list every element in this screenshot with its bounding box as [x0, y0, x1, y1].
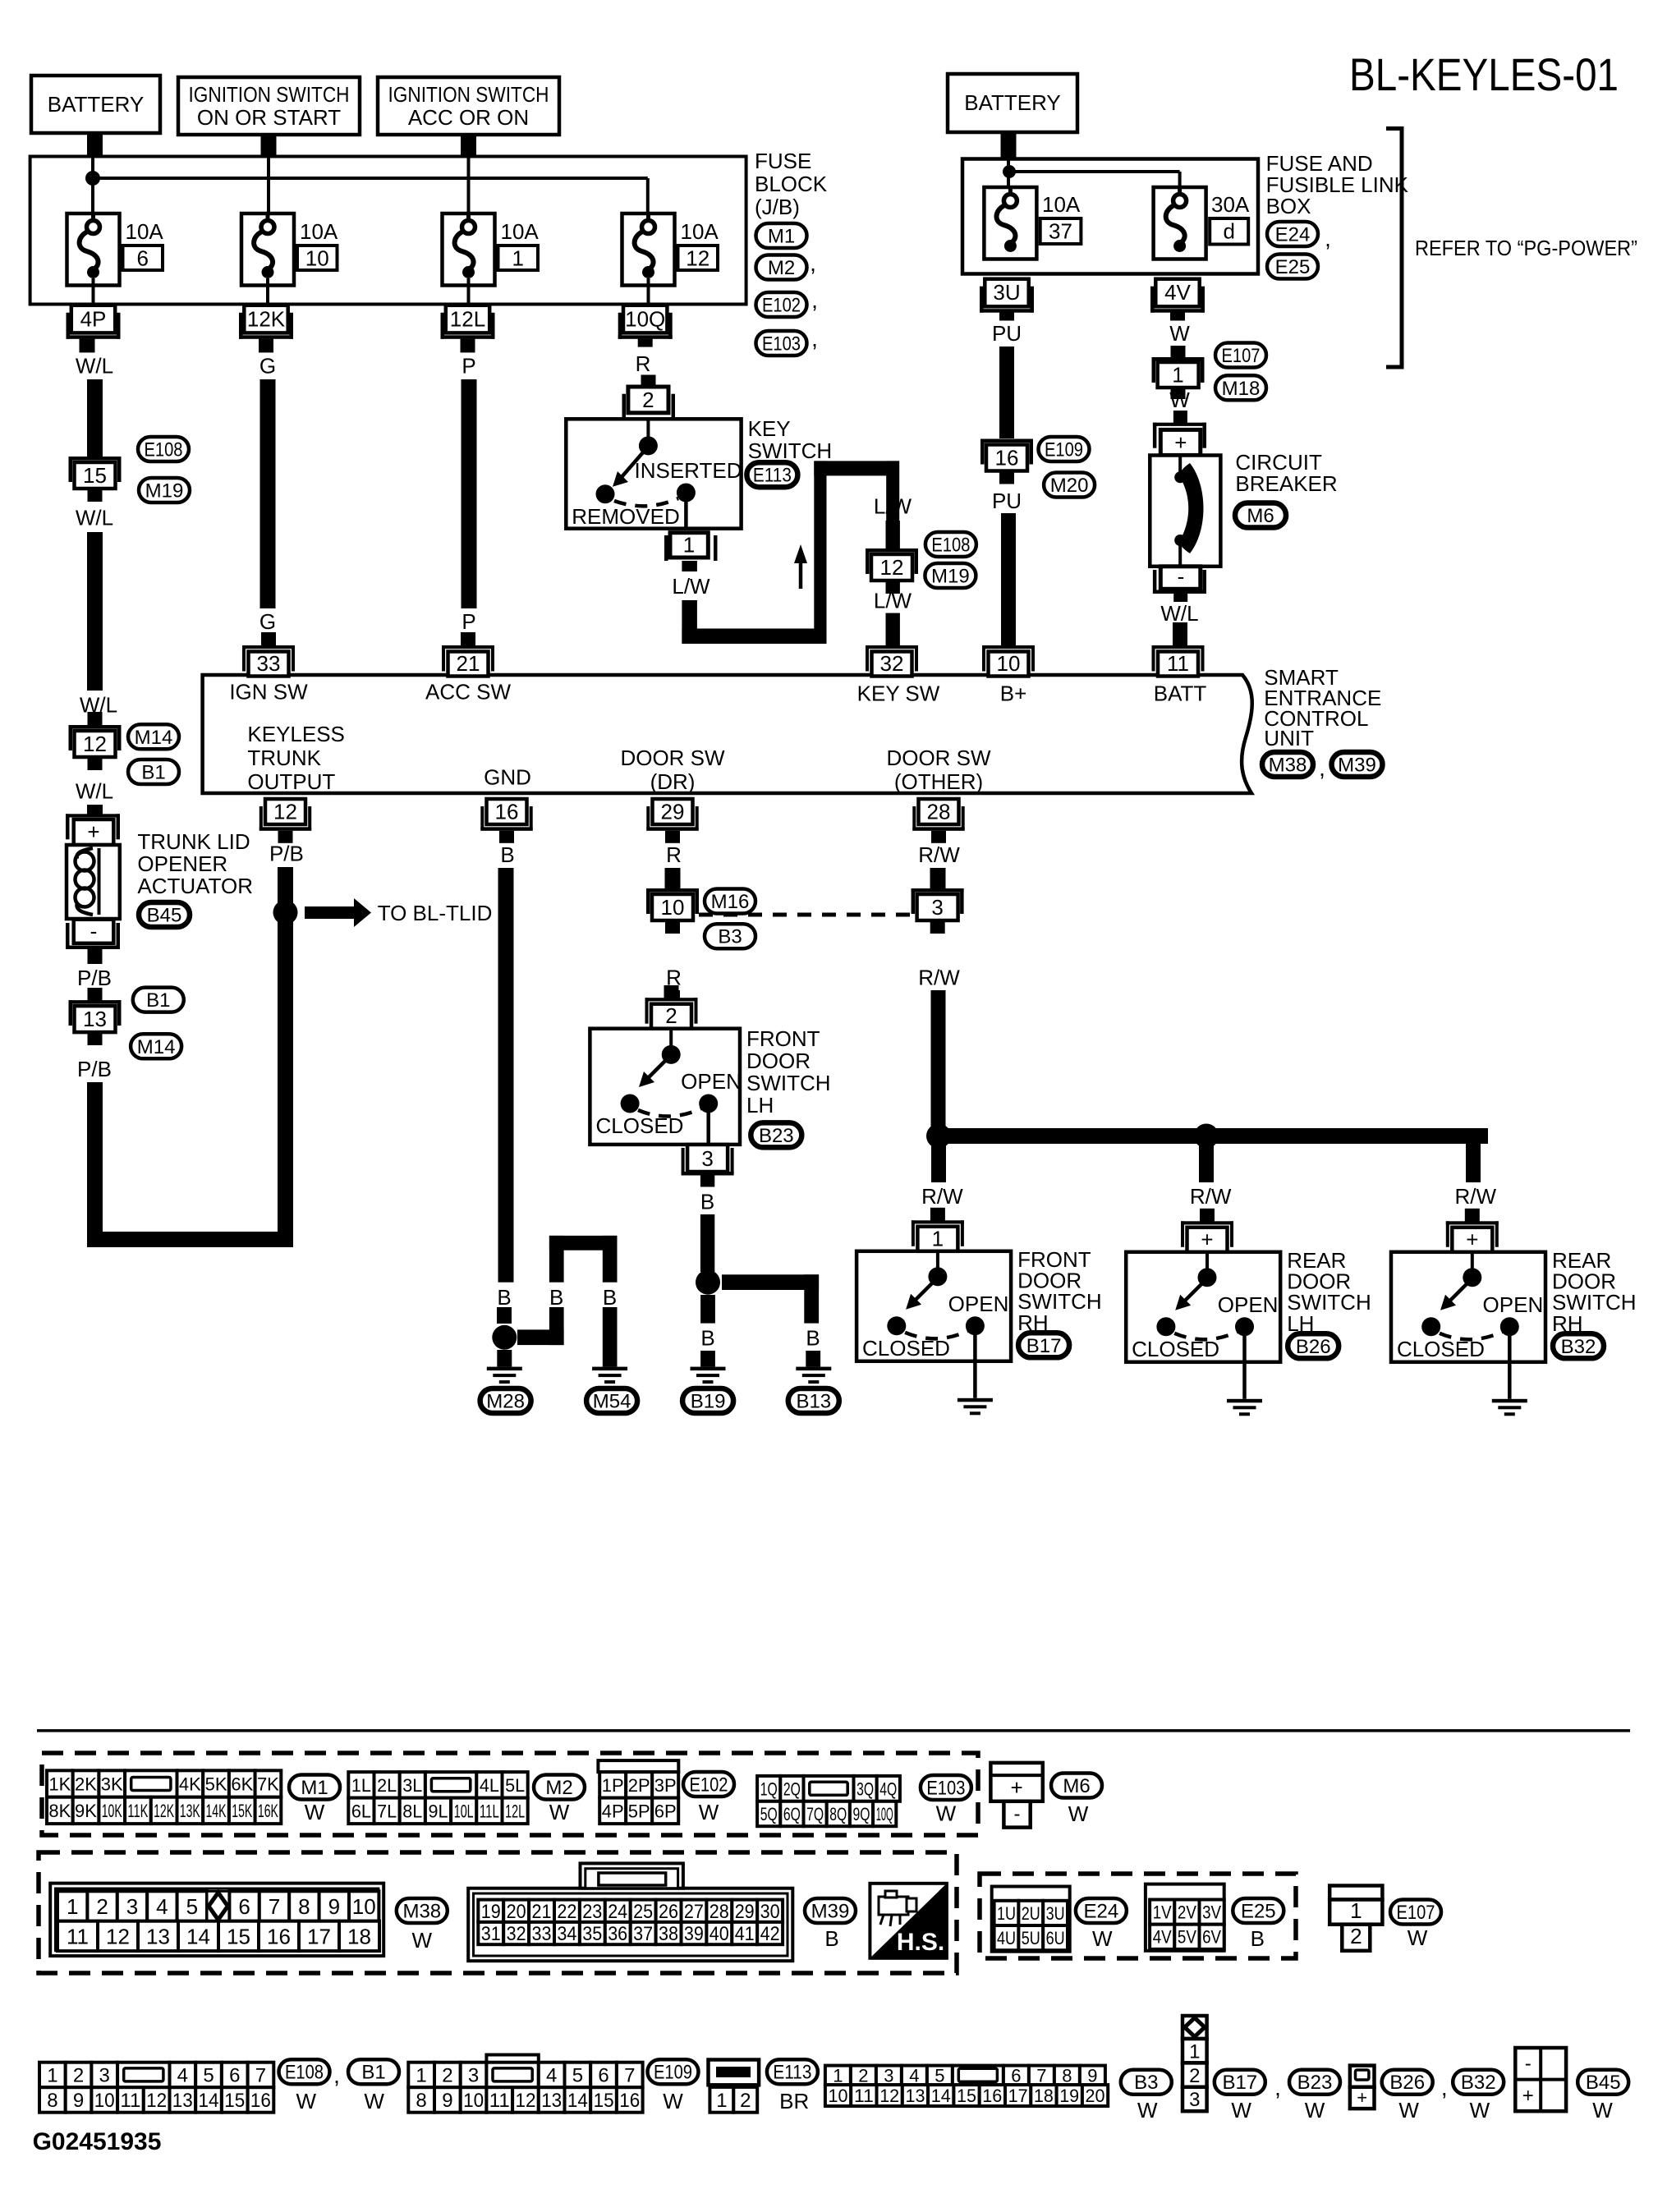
- ground symbol B13: [796, 1367, 831, 1371]
- circuit breaker internals: [1178, 457, 1182, 475]
- svg-text:B23: B23: [759, 1125, 794, 1147]
- svg-text:30: 30: [760, 1901, 780, 1923]
- svg-text:W/L: W/L: [1160, 601, 1198, 626]
- right leg to ground M54: [603, 1307, 618, 1367]
- rear door switch RH OPEN contact: [1500, 1317, 1519, 1336]
- rear door switch RH box: [1391, 1252, 1545, 1362]
- terminal 32 KEY SW: [866, 645, 918, 649]
- svg-text:1: 1: [47, 2065, 57, 2087]
- stub above connector 12 E108/M19: [886, 521, 900, 549]
- svg-text:OPEN: OPEN: [948, 1292, 1009, 1316]
- svg-text:L/W: L/W: [874, 494, 912, 519]
- svg-text:PU: PU: [992, 321, 1022, 346]
- wire B from terminal 16: [498, 868, 514, 1283]
- svg-text:37: 37: [633, 1923, 653, 1945]
- branch to B13 ground: [722, 1274, 819, 1290]
- reference bracket: [1400, 129, 1404, 368]
- svg-text:29: 29: [735, 1901, 755, 1923]
- stub above connector 13: [88, 988, 103, 1001]
- svg-text:DOOR SW: DOOR SW: [620, 746, 725, 770]
- connector oval M20: [1044, 473, 1095, 498]
- svg-text:14: 14: [567, 2090, 588, 2112]
- rear door switch RH CLOSED contact: [1421, 1317, 1440, 1336]
- svg-text:E107: E107: [1397, 1902, 1435, 1924]
- svg-text:10: 10: [305, 246, 329, 271]
- svg-text:L/W: L/W: [874, 589, 912, 613]
- stub above M28 junction: [497, 1307, 512, 1324]
- power source box IGNITION SWITCH ACC OR ON: [378, 77, 559, 135]
- svg-text:ON OR START: ON OR START: [197, 105, 341, 130]
- front door switch RH throw arrow: [916, 1283, 933, 1300]
- svg-text:1: 1: [416, 2065, 426, 2087]
- fuse 10 10A: [241, 213, 294, 286]
- stub below 3U: [999, 313, 1014, 321]
- svg-text:3Q: 3Q: [856, 1778, 874, 1799]
- svg-text:3: 3: [701, 1146, 713, 1171]
- svg-text:W: W: [699, 1800, 719, 1824]
- svg-text:R: R: [636, 351, 651, 376]
- svg-text:E113: E113: [753, 465, 792, 487]
- svg-text:INSERTED: INSERTED: [635, 458, 742, 483]
- svg-text:E25: E25: [1275, 256, 1311, 278]
- stub below 12K: [259, 339, 273, 353]
- svg-text:W: W: [305, 1800, 325, 1824]
- svg-text:B23: B23: [1297, 2072, 1333, 2094]
- svg-text:4V: 4V: [1164, 280, 1191, 305]
- connector oval E25 (table): [1233, 1898, 1284, 1923]
- svg-text:6U: 6U: [1046, 1928, 1065, 1948]
- svg-text:W: W: [1408, 1925, 1428, 1950]
- svg-text:E108: E108: [931, 535, 970, 557]
- front door switch RH dashed travel arc: [905, 1331, 968, 1339]
- connector oval E113: [746, 462, 797, 487]
- wire PU to connector 16: [999, 346, 1014, 438]
- svg-text:OPENER: OPENER: [137, 851, 227, 876]
- svg-text:B45: B45: [1586, 2072, 1621, 2094]
- svg-text:1: 1: [833, 2065, 843, 2086]
- svg-text:5: 5: [935, 2065, 944, 2086]
- svg-text:B32: B32: [1561, 1336, 1596, 1358]
- connector table M1: [47, 1770, 73, 1797]
- svg-text:M54: M54: [593, 1391, 631, 1413]
- svg-text:,: ,: [1325, 226, 1331, 251]
- svg-text:W: W: [549, 1800, 570, 1824]
- svg-text:4V: 4V: [1153, 1927, 1172, 1948]
- svg-text:W: W: [1169, 321, 1190, 346]
- junction node battery feed: [85, 171, 100, 186]
- svg-text:E109: E109: [1045, 439, 1083, 461]
- svg-text:BR: BR: [779, 2089, 809, 2113]
- wire L/W key switch to riser: [682, 600, 697, 644]
- svg-text:B1: B1: [146, 989, 170, 1012]
- ground oval M54: [586, 1388, 637, 1413]
- svg-text:B: B: [500, 842, 514, 867]
- front door switch RH ground: [957, 1398, 993, 1402]
- svg-text:M38: M38: [402, 1901, 441, 1923]
- ground branch bridge wire: [549, 1236, 618, 1251]
- connector oval E109 (table): [648, 2059, 699, 2084]
- svg-text:6P: 6P: [654, 1801, 677, 1821]
- svg-text:BLOCK: BLOCK: [755, 172, 828, 196]
- connector table E25: [1146, 1884, 1224, 1951]
- svg-text:33: 33: [257, 651, 281, 676]
- svg-text:3: 3: [884, 2065, 893, 2086]
- svg-text:1V: 1V: [1153, 1902, 1172, 1923]
- svg-text:B: B: [824, 1926, 838, 1951]
- svg-text:13: 13: [906, 2086, 925, 2106]
- svg-text:L/W: L/W: [672, 574, 710, 599]
- svg-text:30A: 30A: [1211, 192, 1250, 217]
- svg-text:13: 13: [541, 2090, 562, 2112]
- stub to B13 ground: [806, 1351, 820, 1367]
- wire fuse 1 to terminal 12L: [467, 278, 471, 305]
- svg-text:39: 39: [684, 1923, 704, 1945]
- rear door switch LH OPEN contact: [1235, 1317, 1254, 1336]
- svg-text:10A: 10A: [501, 219, 540, 244]
- svg-text:B13: B13: [796, 1391, 831, 1413]
- svg-text:8: 8: [416, 2090, 426, 2112]
- front door switch RH pin connector 1: [930, 1208, 945, 1222]
- connector oval M18: [1215, 375, 1266, 400]
- terminal 12K of fuse block: [244, 305, 287, 333]
- svg-text:B: B: [549, 1285, 563, 1310]
- stub below connector 10: [665, 920, 680, 934]
- stub below circuit breaker: [1173, 594, 1187, 602]
- svg-text:M2: M2: [768, 257, 795, 279]
- svg-text:M1: M1: [301, 1777, 328, 1799]
- svg-text:3V: 3V: [1202, 1902, 1221, 1923]
- svg-text:OUTPUT: OUTPUT: [247, 769, 335, 794]
- svg-text:W: W: [364, 2089, 384, 2113]
- svg-text:M39: M39: [1338, 755, 1376, 777]
- connector table E113: [709, 2060, 760, 2086]
- connector table E102: [598, 1760, 678, 1772]
- key switch dashed arc: [614, 498, 678, 506]
- wire fuse 37 to terminal 3U: [1008, 277, 1012, 281]
- terminal 4P of fuse block: [71, 305, 115, 333]
- ground symbol M28: [487, 1367, 522, 1371]
- connector oval M14 (left): [128, 724, 179, 749]
- connector oval B3 (inline): [705, 924, 755, 948]
- svg-text:1K: 1K: [48, 1774, 71, 1794]
- connector oval B1 (left): [128, 760, 179, 784]
- svg-text:B17: B17: [1026, 1335, 1062, 1357]
- svg-text:7: 7: [269, 1894, 280, 1919]
- connector oval E108 (left): [138, 437, 189, 461]
- svg-text:9: 9: [328, 1894, 340, 1919]
- svg-text:6: 6: [229, 2065, 240, 2087]
- svg-text:+: +: [87, 819, 99, 844]
- connector oval M38: [1262, 752, 1313, 777]
- stub below connector 12: [886, 581, 900, 594]
- svg-text:20: 20: [507, 1901, 526, 1923]
- connector oval M6: [1235, 503, 1286, 528]
- front door switch RH connector oval B17: [1018, 1333, 1069, 1357]
- front door switch LH common contact: [669, 1030, 673, 1052]
- svg-text:13: 13: [146, 1924, 170, 1948]
- svg-text:12: 12: [516, 2090, 536, 2112]
- junction node B19: [696, 1270, 720, 1295]
- stub above circuit breaker: [1173, 411, 1187, 423]
- terminal 3U of fusible link box: [985, 279, 1028, 307]
- bus wire inside fuse block: [91, 158, 94, 213]
- rear door switch LH ground: [1227, 1399, 1262, 1403]
- power source box BATTERY (left): [31, 76, 160, 133]
- svg-text:W: W: [1231, 2098, 1251, 2123]
- connector table M39: [468, 1888, 792, 1962]
- svg-text:13K: 13K: [180, 1801, 200, 1821]
- svg-text:17: 17: [307, 1924, 331, 1948]
- svg-text:12: 12: [273, 800, 297, 824]
- stub below connector 12: [88, 757, 103, 770]
- rear door switch RH dashed travel arc: [1440, 1332, 1503, 1340]
- svg-text:2K: 2K: [75, 1774, 97, 1794]
- svg-text:12K: 12K: [247, 306, 286, 331]
- rear door switch RH connector oval B32: [1553, 1333, 1604, 1358]
- svg-text:10: 10: [661, 895, 685, 920]
- svg-text:19: 19: [1059, 2086, 1079, 2106]
- svg-text:LH: LH: [746, 1093, 774, 1117]
- svg-text:10: 10: [829, 2086, 848, 2106]
- terminal 29 DOOR SW DR: [653, 799, 693, 824]
- svg-text:4P: 4P: [602, 1801, 624, 1821]
- front door switch LH box: [590, 1029, 740, 1145]
- svg-text:,: ,: [811, 326, 818, 351]
- connector table M38: [50, 1884, 383, 1957]
- stub to B19 ground: [700, 1351, 715, 1367]
- connector oval E107 (table): [1390, 1900, 1441, 1925]
- wire battery right to fusible link box: [1001, 131, 1017, 160]
- svg-text:14: 14: [931, 2086, 951, 2106]
- svg-text:1L: 1L: [351, 1775, 371, 1796]
- svg-text:PU: PU: [992, 489, 1022, 513]
- svg-text:3K: 3K: [101, 1774, 123, 1794]
- svg-text:SWITCH: SWITCH: [748, 438, 833, 463]
- connector oval E103 (table): [921, 1775, 971, 1800]
- connector table E109: [486, 2055, 538, 2067]
- svg-text:OPEN: OPEN: [1483, 1292, 1544, 1317]
- svg-text:E108: E108: [145, 439, 183, 461]
- rear door switch LH CLOSED contact: [1156, 1317, 1175, 1336]
- connector E107 (table): [1329, 1886, 1382, 1900]
- connector oval B3 (table): [1121, 2070, 1172, 2095]
- svg-text:B: B: [497, 1285, 511, 1310]
- svg-text:REMOVED: REMOVED: [572, 504, 679, 529]
- svg-text:6V: 6V: [1202, 1927, 1221, 1948]
- svg-text:TRUNK: TRUNK: [247, 746, 321, 770]
- svg-text:M6: M6: [1247, 505, 1274, 527]
- front door switch LH OPEN contact: [699, 1095, 718, 1113]
- terminal 28 DOOR SW OTHER: [919, 799, 959, 824]
- svg-text:12: 12: [106, 1924, 130, 1948]
- svg-text:G: G: [259, 354, 276, 379]
- svg-text:E24: E24: [1084, 1901, 1119, 1923]
- svg-text:REFER TO “PG-POWER”: REFER TO “PG-POWER”: [1415, 236, 1637, 260]
- svg-text:12: 12: [83, 732, 107, 756]
- svg-text:10L: 10L: [454, 1801, 474, 1821]
- svg-text:14K: 14K: [206, 1801, 227, 1821]
- connector table E24: [992, 1887, 1070, 1952]
- fuse 1 10A: [443, 213, 495, 286]
- inline connector 12 E108/M19 (key switch): [866, 548, 918, 553]
- svg-text:2V: 2V: [1178, 1902, 1196, 1923]
- stub above connector 12: [88, 712, 103, 725]
- svg-text:B1: B1: [141, 762, 165, 784]
- svg-text:15: 15: [224, 2090, 245, 2112]
- svg-text:W: W: [1592, 2098, 1613, 2123]
- terminal 12 KEYLESS TRUNK OUTPUT: [265, 799, 305, 824]
- fuse 12 10A: [622, 213, 675, 286]
- svg-text:FUSE: FUSE: [755, 149, 811, 173]
- svg-text:M14: M14: [135, 727, 173, 749]
- corner wire P/B to trunk output wire: [87, 1232, 293, 1247]
- inline connector 15 E108/M19: [69, 457, 122, 461]
- svg-text:9K: 9K: [75, 1801, 97, 1821]
- svg-text:17: 17: [1008, 2086, 1028, 2106]
- stub above connector 1 E107: [1171, 346, 1186, 357]
- svg-text:3P: 3P: [654, 1775, 677, 1796]
- connector oval M2 (table): [534, 1775, 585, 1800]
- connector oval M6 (table): [1051, 1774, 1102, 1798]
- rear door switch LH dashed travel arc: [1174, 1332, 1238, 1340]
- rear door switch RH common contact: [1471, 1252, 1474, 1275]
- connector B45 (table): [1515, 2048, 1566, 2111]
- svg-text:+: +: [1174, 430, 1187, 455]
- keying diamond M38: [207, 1891, 229, 1921]
- svg-text:BATT: BATT: [1154, 681, 1207, 706]
- wire W/L long segment: [87, 532, 103, 691]
- svg-text:9: 9: [1087, 2065, 1097, 2086]
- svg-text:E25: E25: [1241, 1901, 1276, 1923]
- connector oval B26 (table): [1382, 2070, 1433, 2095]
- svg-text:4Q: 4Q: [879, 1778, 897, 1799]
- svg-text:KEYLESS: KEYLESS: [247, 722, 345, 746]
- svg-text:ACC SW: ACC SW: [425, 679, 511, 704]
- svg-text:10K: 10K: [102, 1801, 122, 1821]
- svg-text:E113: E113: [773, 2062, 811, 2084]
- svg-text:3: 3: [99, 2065, 110, 2087]
- dashed group box fuse block connectors: [42, 1753, 978, 1835]
- svg-text:1P: 1P: [602, 1775, 624, 1796]
- svg-text:4: 4: [177, 2065, 188, 2087]
- terminal 4V of fusible link box: [1155, 279, 1199, 307]
- svg-text:10Q: 10Q: [876, 1804, 893, 1824]
- inline connector 10 M16/B3: [646, 888, 699, 893]
- svg-text:E103: E103: [762, 333, 801, 356]
- distribution bar R/W: [931, 1128, 1488, 1144]
- connector table E108/B1: [39, 2063, 66, 2088]
- svg-text:W: W: [412, 1928, 433, 1953]
- svg-text:B: B: [806, 1326, 820, 1351]
- svg-text:B: B: [603, 1285, 617, 1310]
- svg-text:3U: 3U: [1046, 1903, 1065, 1924]
- connector oval B23: [751, 1122, 801, 1147]
- svg-text:10Q: 10Q: [625, 306, 665, 331]
- front door switch RH CLOSED contact: [887, 1316, 906, 1335]
- svg-text:1: 1: [716, 2090, 727, 2112]
- separator line: [37, 1729, 1630, 1732]
- svg-text:15: 15: [227, 1924, 250, 1948]
- ground oval M28: [480, 1388, 531, 1413]
- svg-text:DOOR: DOOR: [746, 1049, 811, 1073]
- svg-text:-: -: [1178, 564, 1185, 589]
- svg-text:(DR): (DR): [650, 769, 696, 794]
- svg-text:7Q: 7Q: [806, 1804, 824, 1824]
- svg-text:M16: M16: [711, 891, 750, 913]
- svg-text:3L: 3L: [402, 1775, 422, 1796]
- svg-text:6L: 6L: [351, 1801, 371, 1821]
- svg-text:27: 27: [684, 1901, 704, 1923]
- svg-text:35: 35: [582, 1923, 602, 1945]
- svg-text:1: 1: [683, 533, 695, 558]
- dashed link connector 10 to connector 3: [699, 913, 911, 917]
- svg-text:M19: M19: [931, 566, 970, 588]
- svg-text:E103: E103: [926, 1778, 965, 1800]
- svg-text:25: 25: [633, 1901, 653, 1923]
- svg-text:+: +: [1011, 1775, 1023, 1800]
- svg-text:2: 2: [1189, 2065, 1200, 2087]
- svg-text:E102: E102: [690, 1774, 728, 1797]
- connector oval E102: [756, 292, 807, 317]
- key switch box: [566, 419, 741, 528]
- svg-text:10A: 10A: [126, 219, 164, 244]
- svg-text:E109: E109: [654, 2062, 692, 2084]
- svg-text:W/L: W/L: [76, 506, 113, 530]
- svg-text:2: 2: [858, 2065, 868, 2086]
- svg-text:12L: 12L: [505, 1801, 525, 1821]
- svg-text:B17: B17: [1222, 2072, 1257, 2094]
- svg-text:BL-KEYLES-01: BL-KEYLES-01: [1349, 48, 1619, 100]
- stub below trunk actuator: [88, 949, 103, 964]
- svg-text:4P: 4P: [80, 306, 107, 331]
- connector oval B17 (table): [1215, 2070, 1265, 2095]
- svg-text:M20: M20: [1050, 475, 1089, 497]
- smart entrance control unit box: [203, 675, 1252, 793]
- svg-text:SWITCH: SWITCH: [746, 1071, 831, 1095]
- svg-text:1: 1: [67, 1894, 78, 1919]
- svg-text:W: W: [1137, 2098, 1158, 2123]
- svg-text:3U: 3U: [993, 280, 1020, 305]
- inline connector 12 M14/B1: [69, 725, 122, 729]
- svg-text:B26: B26: [1389, 2072, 1425, 2094]
- svg-text:1Q: 1Q: [760, 1778, 778, 1799]
- junction node ground M28: [492, 1325, 517, 1350]
- key switch common contact: [646, 420, 650, 443]
- svg-text:CLOSED: CLOSED: [1132, 1337, 1219, 1361]
- wire W/L down to connector 15: [87, 379, 103, 457]
- svg-text:W: W: [1169, 388, 1190, 412]
- terminal 11 BATT: [1152, 645, 1205, 649]
- svg-text:1: 1: [1172, 363, 1183, 388]
- svg-text:16: 16: [995, 446, 1019, 470]
- rear door switch LH box: [1126, 1252, 1280, 1362]
- stub above 21: [461, 632, 475, 645]
- wire B to junction: [700, 1214, 714, 1272]
- svg-text:R: R: [666, 842, 682, 867]
- svg-text:12K: 12K: [154, 1801, 174, 1821]
- svg-text:UNIT: UNIT: [1264, 726, 1314, 750]
- wire fuse 6 to terminal 4P: [92, 278, 95, 305]
- svg-text:3: 3: [468, 2065, 479, 2087]
- svg-text:M6: M6: [1063, 1775, 1090, 1797]
- svg-text:W/L: W/L: [76, 779, 113, 804]
- svg-text:8: 8: [1062, 2065, 1072, 2086]
- svg-text:11: 11: [489, 2090, 510, 2112]
- junction node rear door switch LH: [1194, 1124, 1219, 1149]
- svg-text:6: 6: [238, 1894, 250, 1919]
- svg-text:B: B: [1251, 1926, 1265, 1951]
- svg-text:5: 5: [203, 2065, 214, 2087]
